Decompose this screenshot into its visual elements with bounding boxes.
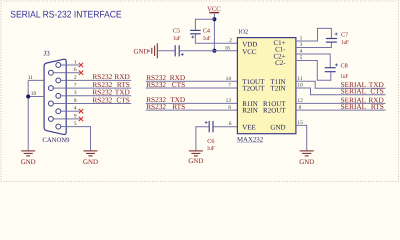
capacitor C8 — [325, 68, 336, 72]
svg-text:2: 2 — [74, 75, 77, 81]
capacitor C5 — [175, 45, 179, 56]
wire main VCC rail (pin16) — [157, 50, 174, 52]
svg-text:GND: GND — [299, 159, 314, 166]
connector J3 body — [44, 59, 66, 134]
svg-text:R2OUT: R2OUT — [263, 107, 286, 115]
no-connect X pin4 — [79, 109, 83, 113]
wire pin12 SERIAL RXD — [296, 102, 386, 104]
svg-text:1uF: 1uF — [341, 39, 349, 46]
C4 plus — [191, 36, 194, 39]
svg-text:RS232: RS232 — [92, 95, 112, 104]
C5 plus — [181, 53, 184, 56]
svg-text:5: 5 — [300, 55, 303, 61]
svg-text:GND: GND — [133, 48, 148, 55]
ground GND3 (pin15) — [300, 151, 314, 156]
svg-text:3: 3 — [300, 42, 303, 48]
svg-text:1uF: 1uF — [341, 73, 349, 80]
wire pin11 SERIAL TXD — [296, 81, 386, 88]
op IC IO2 MAX232 body — [237, 38, 296, 134]
svg-text:CTS: CTS — [116, 95, 129, 104]
svg-text:13: 13 — [226, 98, 232, 104]
svg-text:1: 1 — [74, 59, 77, 65]
svg-text:C7: C7 — [341, 31, 348, 38]
svg-text:11: 11 — [28, 75, 33, 81]
svg-text:1uF: 1uF — [203, 35, 211, 42]
no-connect X pin6 — [79, 71, 83, 75]
svg-text:J3: J3 — [44, 49, 51, 57]
svg-text:15: 15 — [297, 120, 303, 126]
svg-text:4: 4 — [74, 106, 77, 112]
svg-text:C4: C4 — [203, 27, 210, 34]
wire pin1 stub — [66, 64, 79, 66]
wire pin9 stub — [66, 118, 79, 120]
svg-text:10: 10 — [297, 83, 303, 89]
svg-text:11: 11 — [297, 76, 302, 82]
VCC bar — [209, 12, 219, 14]
wire mount pin 10 — [28, 96, 44, 98]
wire pin4 to C8 top — [296, 54, 330, 67]
svg-text:RTS: RTS — [172, 102, 185, 111]
wire pin10 SERIAL CTS — [296, 88, 386, 95]
wire pin4 stub — [66, 110, 79, 112]
svg-text:SERIAL RS-232 INTERFACE: SERIAL RS-232 INTERFACE — [10, 9, 122, 20]
wire pin9 SERIAL RTS — [296, 109, 386, 111]
ground GND1 (shield) — [21, 151, 35, 156]
C8 plus — [335, 64, 338, 67]
wire C6 to ground — [196, 127, 209, 151]
svg-text:GND: GND — [21, 159, 36, 166]
svg-text:VEE: VEE — [242, 123, 256, 131]
wire pin1 to C7 top — [296, 28, 332, 41]
svg-text:RTS: RTS — [371, 102, 384, 111]
underline MAX232 — [237, 142, 263, 144]
sheet border — [1, 1, 399, 182]
svg-text:3: 3 — [74, 90, 77, 96]
junction mount pins — [26, 95, 30, 99]
svg-text:T2OUT: T2OUT — [242, 85, 265, 93]
svg-text:5: 5 — [74, 121, 77, 127]
wire C4 top link — [195, 19, 214, 30]
wire C4 bottom to pin2 — [195, 34, 237, 43]
svg-text:10: 10 — [31, 91, 37, 97]
svg-text:1uF: 1uF — [173, 35, 181, 42]
svg-text:GND: GND — [188, 158, 203, 165]
svg-text:CANON9: CANON9 — [42, 137, 70, 144]
connector pin circles left column (pins 6,7,8,9) — [48, 70, 53, 121]
svg-text:8: 8 — [74, 98, 77, 104]
no-connect X pin9 — [79, 117, 83, 121]
svg-text:16: 16 — [225, 46, 231, 52]
svg-text:12: 12 — [297, 98, 303, 104]
svg-text:CTS: CTS — [172, 80, 185, 89]
C7 plus — [335, 33, 338, 36]
svg-text:9: 9 — [299, 105, 302, 111]
svg-text:6: 6 — [229, 121, 232, 127]
wire pin8 RS232 CTS — [66, 103, 131, 105]
wire C7 bottom to pin3 — [296, 42, 332, 47]
svg-text:7: 7 — [228, 83, 231, 89]
svg-text:1uF: 1uF — [207, 145, 215, 152]
svg-text:2: 2 — [229, 38, 232, 44]
svg-text:RS232: RS232 — [146, 80, 166, 89]
svg-text:T2IN: T2IN — [270, 85, 285, 93]
svg-text:14: 14 — [226, 76, 232, 82]
svg-text:GND: GND — [270, 123, 285, 131]
capacitor C4 — [190, 30, 201, 33]
wire C6 to pin6 — [214, 126, 238, 128]
capacitor C7 — [326, 39, 337, 43]
svg-text:VCC: VCC — [207, 6, 221, 13]
capacitor C6 — [209, 121, 213, 132]
svg-text:7: 7 — [74, 83, 77, 89]
svg-text:VCC: VCC — [242, 48, 257, 56]
wire RS232 RXD to pin14 — [146, 80, 238, 82]
wire mount pin 11 — [28, 79, 44, 81]
svg-text:C5: C5 — [173, 27, 180, 34]
svg-text:SERIAL: SERIAL — [341, 102, 367, 111]
ground GND2 (pin5) — [84, 151, 98, 156]
svg-text:R2IN: R2IN — [242, 107, 258, 115]
C6 plus — [205, 121, 208, 124]
svg-text:C8: C8 — [341, 62, 348, 69]
svg-text:C2-: C2- — [275, 59, 286, 67]
junction VCC main — [212, 49, 216, 53]
wire shield to ground — [27, 80, 29, 150]
wire RS232 CTS to pin7 — [146, 87, 238, 89]
connector pin circles right column (pins 1,2,3,4,5) — [56, 63, 61, 130]
wire pin15 to ground — [296, 125, 307, 150]
junction VCC top — [212, 17, 216, 21]
no-connect X pin1 — [79, 63, 83, 67]
wire RS232 RTS to pin8 — [146, 109, 238, 111]
wire pin7 RS232 RTS — [66, 87, 131, 89]
wire pin2 RS232 RXD — [66, 79, 131, 81]
wire VCC drop — [213, 13, 215, 51]
IC pin names right column — [263, 39, 286, 131]
svg-text:GND: GND — [83, 159, 98, 166]
svg-text:1: 1 — [300, 36, 303, 42]
IC pin names left column — [242, 41, 265, 132]
wire pin6 stub — [66, 72, 79, 74]
connector internal leader lines — [54, 65, 67, 127]
wire pin5 to ground — [66, 127, 90, 151]
svg-text:RS232: RS232 — [146, 102, 166, 111]
svg-text:6: 6 — [74, 67, 77, 73]
svg-text:8: 8 — [228, 105, 231, 111]
wire C8 bottom to pin5 — [296, 61, 331, 81]
ground GND4 (C6) — [189, 151, 203, 156]
svg-text:4: 4 — [300, 49, 303, 55]
svg-text:9: 9 — [74, 113, 77, 119]
wire pin3 RS232 TXD — [66, 95, 131, 97]
svg-text:IO2: IO2 — [238, 29, 248, 36]
wire RS232 TXD to pin13 — [146, 102, 238, 104]
